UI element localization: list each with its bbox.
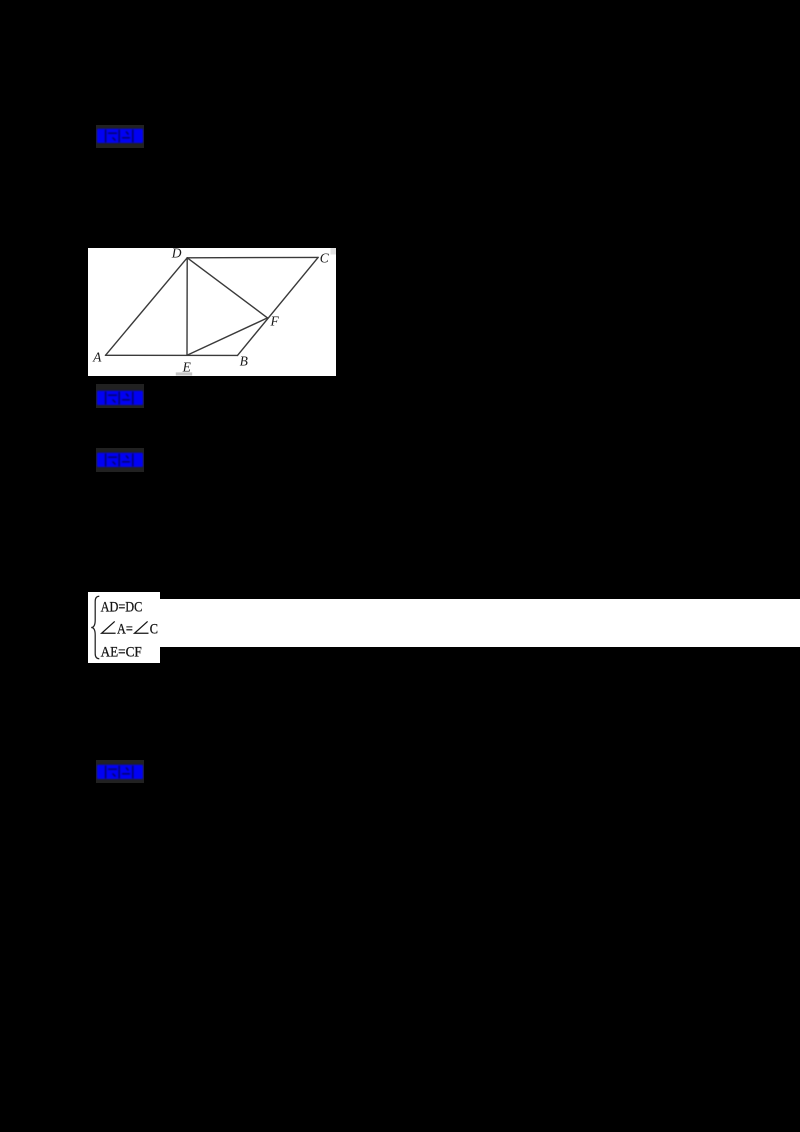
label L1 shading (96, 125, 144, 148)
label L4 【点睛】 (97, 764, 143, 780)
segment DE (186, 258, 188, 356)
svg-text:AE=CF: AE=CF (101, 644, 142, 661)
svg-text:D: D (170, 248, 181, 260)
svg-text:C: C (319, 251, 329, 266)
E label shading (175, 372, 191, 375)
svg-text:AD=DC: AD=DC (101, 598, 143, 614)
svg-text:F: F (269, 314, 279, 329)
corner artifact (330, 248, 336, 255)
svg-text:C: C (150, 620, 158, 636)
svg-text:E: E (181, 359, 191, 374)
svg-text:A=: A= (117, 620, 133, 636)
row 2: ∠A=∠C (102, 621, 149, 633)
left curly brace (91, 596, 99, 658)
white strip to right margin (160, 599, 800, 648)
segment DF (187, 258, 267, 318)
svg-text:B: B (239, 354, 247, 369)
label L2 shading (96, 384, 144, 408)
side AD (105, 258, 187, 356)
label L1 【答案】 (97, 128, 143, 144)
side AB (105, 354, 237, 356)
label L4 shading (96, 760, 144, 783)
svg-text:A: A (92, 350, 102, 365)
label L2 【分析】 (97, 390, 143, 406)
label L3 【详解】 (97, 452, 143, 468)
side DC (187, 256, 318, 258)
figure box (parallelogram ABCD with E on AB, F on BC) (88, 248, 337, 376)
label L3 shading (96, 448, 144, 471)
side CB (237, 257, 318, 355)
segment EF (187, 318, 268, 355)
equation image box: brace system {AD=DC, ∠A=∠C, AE=CF (88, 592, 160, 663)
